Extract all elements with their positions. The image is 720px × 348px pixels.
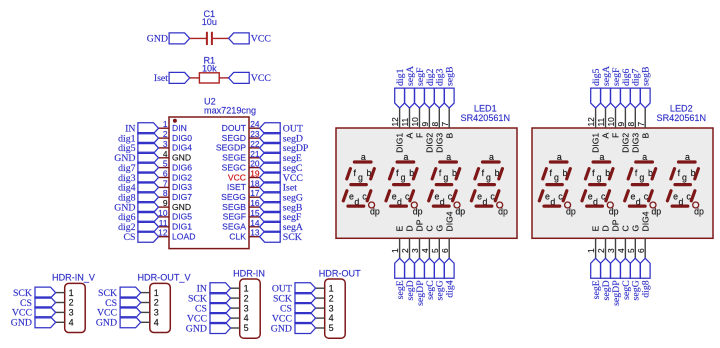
- svg-text:g: g: [401, 172, 406, 182]
- svg-text:e: e: [349, 191, 354, 201]
- LED1 pin 6 (DIG4) bottom: [440, 211, 455, 258]
- LED1 pin 1 (E) bottom: [390, 226, 405, 259]
- net label segDP (LED2 bottom pin 3): [611, 258, 622, 306]
- connector HDR-IN_V body: [65, 283, 86, 332]
- net label segF (LED2 top pin 10): [611, 67, 622, 108]
- svg-text:DOUT: DOUT: [222, 123, 247, 133]
- LED2 pin 5 (G) bottom: [626, 225, 641, 259]
- LED2 pin 2 (D) bottom: [596, 225, 611, 258]
- svg-text:DIG3: DIG3: [172, 182, 192, 192]
- svg-text:DIG2: DIG2: [621, 133, 631, 153]
- svg-text:5: 5: [163, 159, 168, 169]
- svg-text:3: 3: [69, 308, 74, 318]
- net label dig6 (U2 pin 10): [118, 211, 158, 223]
- svg-text:segB: segB: [641, 66, 652, 86]
- U2 pin 4 (GND): [159, 149, 192, 163]
- svg-text:3: 3: [154, 308, 159, 318]
- svg-text:11: 11: [400, 117, 410, 126]
- svg-text:DIN: DIN: [172, 123, 187, 133]
- svg-text:10: 10: [606, 117, 616, 127]
- svg-text:13: 13: [250, 228, 260, 238]
- svg-text:GND: GND: [271, 323, 292, 334]
- svg-text:g: g: [597, 172, 602, 182]
- net label OUT (U2 pin 24): [260, 123, 303, 135]
- svg-text:3: 3: [606, 248, 616, 253]
- LED1 7-segment digit 3: [429, 152, 466, 216]
- LED2 pin 11 (A) top: [596, 108, 611, 139]
- svg-text:GND: GND: [172, 153, 191, 163]
- LED2 pin 12 (DIG1) top: [586, 108, 601, 153]
- svg-text:DIG1: DIG1: [591, 133, 601, 153]
- svg-text:DIG0: DIG0: [172, 133, 192, 143]
- U2 pin 2 (DIG0): [159, 129, 193, 143]
- svg-text:19: 19: [250, 169, 260, 179]
- svg-text:HDR-IN: HDR-IN: [233, 268, 265, 278]
- HDR-IN pin 1: [231, 283, 249, 293]
- svg-text:HDR-OUT: HDR-OUT: [319, 268, 361, 278]
- LED2 pin 1 (E) bottom: [586, 226, 601, 259]
- net label dig5 (U2 pin 3): [118, 142, 158, 154]
- HDR-IN pin 3: [231, 303, 249, 313]
- svg-text:23: 23: [250, 129, 260, 139]
- svg-text:e: e: [588, 191, 593, 201]
- svg-text:1: 1: [69, 288, 74, 298]
- svg-text:10u: 10u: [202, 17, 217, 27]
- svg-text:7: 7: [636, 122, 646, 127]
- LED1 pin 10 (F) top: [410, 108, 425, 138]
- LED1 7-segment digit 1: [343, 152, 380, 216]
- net label dig2 (U2 pin 11): [118, 221, 158, 233]
- svg-text:3: 3: [244, 303, 249, 313]
- U2 pin 14 (SEGA): [222, 218, 260, 232]
- svg-text:18: 18: [250, 178, 260, 188]
- net label SCK (HDR-OUT pin 2): [273, 293, 316, 305]
- net label segA (LED1 top pin 11): [405, 66, 416, 108]
- svg-text:4: 4: [244, 313, 249, 323]
- svg-text:SEGA: SEGA: [222, 222, 246, 232]
- net label segDP (U2 pin 22): [260, 142, 309, 154]
- LED1 pin 7 (B) top: [440, 108, 455, 139]
- LED2 pin 9 (DIG2) top: [616, 108, 631, 153]
- svg-text:dp: dp: [370, 207, 380, 217]
- svg-text:4: 4: [420, 248, 430, 253]
- net label dig8 (U2 pin 8): [118, 192, 158, 204]
- net label segC (LED2 bottom pin 4): [621, 258, 632, 300]
- svg-text:DIG4: DIG4: [640, 211, 650, 231]
- net label segD (U2 pin 23): [260, 133, 303, 145]
- svg-text:e: e: [673, 191, 678, 201]
- U2 pin 6 (DIG2): [159, 169, 193, 183]
- net label VCC (U2 pin 19): [260, 172, 303, 184]
- U2 orientation dot: [173, 119, 177, 123]
- svg-text:2: 2: [154, 298, 159, 308]
- HDR-IN pin 4: [231, 313, 249, 323]
- U2 pin 3 (DIG4): [159, 139, 193, 153]
- svg-text:10: 10: [410, 117, 420, 127]
- svg-text:LOAD: LOAD: [172, 232, 195, 242]
- net label Iset (R1 left): [154, 72, 190, 84]
- svg-text:F: F: [611, 133, 621, 138]
- svg-text:GND: GND: [11, 318, 32, 329]
- connector HDR-OUT_V body: [150, 283, 171, 332]
- svg-text:GND: GND: [96, 318, 117, 329]
- svg-text:B: B: [444, 133, 454, 139]
- HDR-IN pin 5: [231, 323, 249, 333]
- svg-text:1: 1: [244, 283, 249, 293]
- svg-text:SEGG: SEGG: [221, 192, 246, 202]
- svg-text:SEGD: SEGD: [222, 133, 246, 143]
- net label VCC (HDR-IN_V pin 3): [12, 307, 56, 319]
- svg-text:14: 14: [250, 218, 260, 228]
- svg-text:10k: 10k: [202, 64, 217, 74]
- svg-text:4: 4: [329, 313, 334, 323]
- svg-text:g: g: [639, 172, 644, 182]
- value label C1 10u: [202, 9, 217, 27]
- svg-text:9: 9: [616, 122, 626, 127]
- svg-text:4: 4: [69, 318, 74, 328]
- svg-text:e: e: [434, 191, 439, 201]
- svg-text:e: e: [545, 191, 550, 201]
- net label GND (HDR-IN_V pin 4): [11, 317, 56, 329]
- net label segF (U2 pin 15): [260, 211, 302, 223]
- svg-text:12: 12: [586, 117, 596, 127]
- net label GND (HDR-OUT pin 5): [271, 323, 316, 335]
- svg-text:g: g: [554, 172, 559, 182]
- net label OUT (HDR-OUT pin 1): [272, 283, 316, 295]
- svg-text:e: e: [477, 191, 482, 201]
- svg-text:A: A: [601, 133, 611, 139]
- svg-text:16: 16: [250, 198, 260, 208]
- svg-text:10: 10: [158, 208, 168, 218]
- svg-text:segB: segB: [445, 66, 456, 86]
- svg-text:Iset: Iset: [154, 73, 168, 84]
- net label SCK (U2 pin 13): [260, 231, 302, 243]
- svg-text:C: C: [425, 225, 435, 231]
- svg-text:E: E: [591, 226, 601, 232]
- svg-text:15: 15: [250, 208, 260, 218]
- svg-text:11: 11: [596, 117, 606, 126]
- svg-text:4: 4: [163, 149, 168, 159]
- net label SCK (HDR-IN_V pin 1): [13, 287, 56, 299]
- svg-text:9: 9: [163, 198, 168, 208]
- wire R1 to VCC: [219, 77, 228, 79]
- svg-text:5: 5: [329, 323, 334, 333]
- net label dig3 (LED1 top pin 8): [434, 68, 445, 108]
- svg-text:dp: dp: [413, 207, 423, 217]
- HDR-IN pin 2: [231, 293, 249, 303]
- connector HDR-IN body: [240, 279, 261, 338]
- LED1 pin 12 (DIG1) top: [390, 108, 405, 153]
- svg-text:VCC: VCC: [251, 73, 271, 84]
- svg-text:5: 5: [244, 323, 249, 333]
- svg-text:SEGF: SEGF: [223, 212, 246, 222]
- U2 pin 13 (CLK): [229, 228, 260, 242]
- svg-text:8: 8: [163, 188, 168, 198]
- svg-text:g: g: [682, 172, 687, 182]
- reference label U2 max7219cng: [204, 96, 256, 115]
- LED2 7-segment digit 1: [539, 152, 576, 216]
- svg-text:6: 6: [440, 248, 450, 253]
- svg-text:G: G: [630, 225, 640, 232]
- svg-text:5: 5: [430, 248, 440, 253]
- LED1 7-segment digit 2: [386, 152, 423, 216]
- svg-text:12: 12: [158, 228, 168, 238]
- reference label LED1 SR420561N: [461, 104, 511, 123]
- svg-text:CS: CS: [124, 232, 136, 243]
- U2 pin 9 (GND): [159, 198, 192, 212]
- svg-text:2: 2: [329, 293, 334, 303]
- net label GND (HDR-IN pin 5): [186, 323, 231, 335]
- svg-text:SCK: SCK: [283, 232, 302, 243]
- net label VCC (C1 right): [229, 33, 271, 45]
- reference label LED2 SR420561N: [657, 104, 707, 123]
- U2 pin 15 (SEGF): [223, 208, 260, 222]
- svg-text:22: 22: [250, 139, 260, 149]
- net label SCK (HDR-IN pin 2): [188, 293, 231, 305]
- net label VCC (R1 right): [229, 72, 271, 84]
- net label Iset (U2 pin 18): [260, 182, 298, 194]
- net label GND (HDR-OUT_V pin 4): [96, 317, 141, 329]
- LED2 pin 4 (C) bottom: [616, 225, 631, 258]
- svg-text:g: g: [443, 172, 448, 182]
- net label dig7 (LED2 top pin 8): [630, 68, 641, 108]
- net label segA (U2 pin 14): [260, 221, 303, 233]
- net label dig6 (LED2 top pin 9): [621, 68, 632, 108]
- svg-text:e: e: [392, 191, 397, 201]
- net label dig5 (LED2 top pin 12): [591, 68, 602, 108]
- svg-text:DIG1: DIG1: [172, 222, 192, 232]
- svg-text:11: 11: [159, 218, 168, 228]
- net label segC (LED1 bottom pin 4): [425, 258, 436, 300]
- HDR-OUT_V pin 4: [141, 318, 159, 328]
- LED1 pin 8 (DIG3) top: [430, 108, 445, 153]
- net label segG (LED1 bottom pin 5): [434, 258, 445, 300]
- HDR-OUT_V pin 2: [141, 298, 159, 308]
- svg-text:SR420561N: SR420561N: [461, 113, 511, 123]
- svg-text:DP: DP: [415, 219, 425, 231]
- net label dig8 (LED2 bottom pin 6): [640, 258, 651, 297]
- svg-text:DIG6: DIG6: [172, 162, 192, 172]
- svg-text:dp: dp: [694, 207, 704, 217]
- net label dig1 (U2 pin 2): [118, 133, 158, 145]
- svg-text:SEGB: SEGB: [222, 202, 246, 212]
- HDR-IN_V pin 3: [56, 308, 74, 318]
- svg-text:dp: dp: [609, 207, 619, 217]
- LED1 pin 5 (G) bottom: [430, 225, 445, 259]
- svg-text:6: 6: [163, 169, 168, 179]
- net label segC (U2 pin 20): [260, 162, 303, 174]
- svg-text:F: F: [415, 133, 425, 138]
- svg-text:dp: dp: [566, 207, 576, 217]
- svg-text:SEGE: SEGE: [222, 153, 246, 163]
- net label GND (U2 pin 4): [114, 152, 158, 164]
- HDR-OUT_V pin 3: [141, 308, 159, 318]
- net label dig4 (LED1 bottom pin 6): [444, 258, 455, 297]
- LED2 pin 7 (B) top: [636, 108, 651, 139]
- U2 pin 17 (SEGG): [221, 188, 260, 202]
- svg-text:ISET: ISET: [227, 182, 247, 192]
- net label GND (C1 left): [147, 33, 190, 45]
- svg-text:SEGDP: SEGDP: [216, 143, 246, 153]
- svg-text:e: e: [630, 191, 635, 201]
- LED1 pin 9 (DIG2) top: [420, 108, 435, 153]
- net label SCK (HDR-OUT_V pin 1): [98, 287, 141, 299]
- svg-text:DIG2: DIG2: [425, 133, 435, 153]
- svg-text:DIG3: DIG3: [434, 133, 444, 153]
- HDR-IN_V pin 4: [56, 318, 74, 328]
- svg-text:DIG5: DIG5: [172, 212, 192, 222]
- svg-text:VCC: VCC: [228, 172, 246, 182]
- svg-text:5: 5: [626, 248, 636, 253]
- net label segE (U2 pin 21): [260, 152, 302, 164]
- svg-text:3: 3: [163, 139, 168, 149]
- svg-text:24: 24: [250, 119, 260, 129]
- svg-text:2: 2: [69, 298, 74, 308]
- HDR-OUT pin 1: [316, 283, 334, 293]
- LED display LED2 body (SR420561N): [532, 128, 713, 238]
- resistor R1: [199, 73, 219, 83]
- svg-text:GND: GND: [147, 34, 168, 45]
- svg-text:12: 12: [390, 117, 400, 127]
- svg-text:1: 1: [329, 283, 334, 293]
- LED2 7-segment digit 2: [582, 152, 619, 216]
- LED1 pin 3 (DP) bottom: [410, 219, 425, 258]
- svg-text:1: 1: [163, 119, 168, 129]
- LED1 7-segment digit 4: [471, 152, 508, 216]
- svg-text:1: 1: [390, 248, 400, 253]
- net label segB (U2 pin 16): [260, 202, 303, 214]
- net label VCC (HDR-IN pin 4): [187, 313, 231, 325]
- net label IN (U2 pin 1): [125, 123, 158, 135]
- svg-text:dp: dp: [455, 207, 465, 217]
- U2 pin 8 (DIG7): [159, 188, 193, 202]
- svg-text:CLK: CLK: [229, 232, 246, 242]
- svg-text:E: E: [395, 226, 405, 232]
- net label segD (LED1 bottom pin 2): [405, 258, 416, 300]
- op-amp U2 body (max7219cng): [169, 117, 249, 249]
- svg-text:2: 2: [163, 129, 168, 139]
- svg-text:7: 7: [163, 178, 168, 188]
- net label IN (HDR-IN pin 1): [197, 283, 231, 295]
- LED2 pin 3 (DP) bottom: [606, 219, 621, 258]
- LED1 pin 11 (A) top: [400, 108, 415, 139]
- svg-text:dp: dp: [651, 207, 661, 217]
- svg-text:D: D: [601, 225, 611, 231]
- svg-text:dig8: dig8: [641, 280, 652, 298]
- svg-text:7: 7: [440, 122, 450, 127]
- HDR-OUT pin 2: [316, 293, 334, 303]
- svg-text:max7219cng: max7219cng: [204, 106, 256, 116]
- net label dig7 (U2 pin 5): [118, 162, 158, 174]
- LED2 pin 6 (DIG4) bottom: [636, 211, 651, 258]
- svg-text:2: 2: [400, 248, 410, 253]
- net label CS (HDR-OUT_V pin 2): [105, 297, 141, 309]
- svg-text:20: 20: [250, 159, 260, 169]
- svg-text:9: 9: [420, 122, 430, 127]
- svg-text:g: g: [358, 172, 363, 182]
- LED display LED1 body (SR420561N): [336, 128, 517, 238]
- net label segE (LED2 bottom pin 1): [591, 258, 602, 299]
- net label CS (HDR-OUT pin 3): [280, 303, 316, 315]
- svg-text:8: 8: [430, 122, 440, 127]
- U2 pin 24 (DOUT): [222, 119, 260, 133]
- svg-text:DIG7: DIG7: [172, 192, 192, 202]
- U2 pin 18 (ISET): [227, 178, 260, 192]
- value label R1 10k: [202, 56, 217, 74]
- net label segB (LED2 top pin 7): [640, 66, 651, 108]
- net label segA (LED2 top pin 11): [601, 66, 612, 108]
- svg-text:D: D: [405, 225, 415, 231]
- svg-text:dp: dp: [498, 207, 508, 217]
- svg-text:1: 1: [586, 248, 596, 253]
- net label VCC (HDR-OUT pin 4): [272, 313, 316, 325]
- HDR-OUT_V pin 1: [141, 288, 159, 298]
- svg-text:GND: GND: [186, 323, 207, 334]
- svg-text:B: B: [640, 133, 650, 139]
- net label segF (LED1 top pin 10): [415, 67, 426, 108]
- svg-text:DIG4: DIG4: [444, 211, 454, 231]
- U2 pin 11 (DIG1): [159, 218, 193, 232]
- net label dig1 (LED1 top pin 12): [395, 68, 406, 108]
- svg-text:GND: GND: [172, 202, 191, 212]
- net label segD (LED2 bottom pin 2): [601, 258, 612, 300]
- HDR-OUT pin 4: [316, 313, 334, 323]
- LED1 pin 4 (C) bottom: [420, 225, 435, 258]
- svg-text:DP: DP: [611, 219, 621, 231]
- net label segG (LED2 bottom pin 5): [630, 258, 641, 300]
- svg-text:HDR-IN_V: HDR-IN_V: [52, 273, 96, 283]
- U2 pin 12 (LOAD): [158, 228, 195, 242]
- svg-text:VCC: VCC: [251, 34, 271, 45]
- U2 pin 5 (DIG6): [159, 159, 193, 173]
- svg-text:A: A: [405, 133, 415, 139]
- connector HDR-OUT body: [325, 279, 346, 338]
- U2 pin 16 (SEGB): [222, 198, 260, 212]
- net label CS (HDR-IN_V pin 2): [20, 297, 56, 309]
- U2 pin 1 (DIN): [159, 119, 187, 133]
- svg-text:17: 17: [250, 188, 260, 198]
- HDR-OUT pin 3: [316, 303, 334, 313]
- svg-text:G: G: [434, 225, 444, 232]
- LED2 pin 10 (F) top: [606, 108, 621, 138]
- LED2 7-segment digit 3: [625, 152, 662, 216]
- svg-text:g: g: [486, 172, 491, 182]
- net label segE (LED1 bottom pin 1): [395, 258, 406, 299]
- net label segG (U2 pin 17): [260, 192, 303, 204]
- net label dig2 (LED1 top pin 9): [425, 68, 436, 108]
- svg-text:21: 21: [250, 149, 260, 159]
- HDR-IN_V pin 2: [56, 298, 74, 308]
- wire C1 to VCC: [213, 37, 229, 39]
- svg-text:C: C: [621, 225, 631, 231]
- U2 pin 21 (SEGE): [222, 149, 260, 163]
- net label dig3 (U2 pin 6): [118, 172, 158, 184]
- svg-text:SEGC: SEGC: [222, 162, 246, 172]
- svg-text:DIG1: DIG1: [395, 133, 405, 153]
- wire GND to C1: [190, 37, 206, 39]
- svg-text:SR420561N: SR420561N: [657, 113, 707, 123]
- wire Iset to R1: [190, 77, 200, 79]
- HDR-OUT pin 5: [316, 323, 334, 333]
- net label GND (U2 pin 9): [114, 202, 158, 214]
- net label segB (LED1 top pin 7): [444, 66, 455, 108]
- svg-text:HDR-OUT_V: HDR-OUT_V: [137, 273, 191, 283]
- svg-text:dig4: dig4: [445, 280, 456, 298]
- svg-text:DIG3: DIG3: [630, 133, 640, 153]
- U2 pin 10 (DIG5): [158, 208, 192, 222]
- capacitor C1: [207, 32, 212, 45]
- net label VCC (HDR-OUT_V pin 3): [97, 307, 141, 319]
